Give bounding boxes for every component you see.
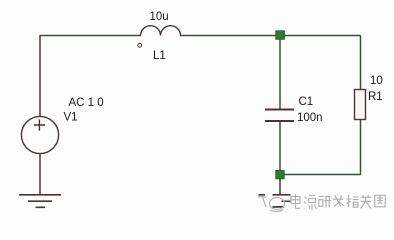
V1 plus sign bbox=[34, 119, 45, 130]
junction square top node bbox=[276, 31, 285, 40]
watermark logo bbox=[258, 197, 297, 212]
wire stub junction to right ground bbox=[279, 175, 281, 195]
ground right (partially covered by watermark, only visible segments drawn) bbox=[259, 195, 292, 207]
svg-text:10u: 10u bbox=[150, 11, 169, 23]
svg-text:R1: R1 bbox=[368, 91, 383, 103]
voltage source V1 circle bbox=[21, 116, 58, 153]
wire right vertical bottom: R1 to bottom rail bbox=[360, 120, 362, 175]
wire top-right horizontal from inductor to R1 branch bbox=[180, 35, 361, 37]
wire right vertical top: corner down to R1 bbox=[360, 36, 362, 91]
ground left bbox=[19, 195, 61, 208]
char 精 bbox=[347, 195, 359, 208]
wire V1 bottom to ground bbox=[39, 154, 41, 196]
wire left vertical from top corner down to V1 bbox=[39, 35, 41, 117]
char 圈 bbox=[375, 195, 386, 207]
inductor L1 bbox=[141, 26, 181, 36]
wire capacitor branch lower bbox=[279, 122, 281, 175]
capacitor C1 plates bbox=[265, 110, 294, 122]
char 源 bbox=[304, 195, 316, 210]
char 研 bbox=[319, 195, 331, 208]
watermark text 电源研发精英圈 (approximated glyphs) bbox=[291, 195, 386, 211]
wire capacitor branch upper bbox=[279, 36, 281, 110]
svg-text:V1: V1 bbox=[64, 112, 78, 124]
inductor L1 phase dot bbox=[138, 43, 142, 47]
resistor R1 box bbox=[355, 90, 366, 120]
wire top-left horizontal (node IN) bbox=[40, 35, 141, 37]
char 电 bbox=[291, 195, 301, 209]
junction square bottom node bbox=[276, 170, 285, 179]
char 英 bbox=[361, 195, 372, 209]
wire bottom horizontal rail bbox=[280, 174, 361, 176]
char 发 bbox=[333, 195, 345, 207]
svg-text:100n: 100n bbox=[297, 112, 323, 124]
svg-text:10: 10 bbox=[370, 75, 383, 87]
svg-text:C1: C1 bbox=[299, 96, 314, 108]
svg-text:AC 1 0: AC 1 0 bbox=[69, 97, 104, 109]
svg-text:L1: L1 bbox=[153, 50, 166, 62]
